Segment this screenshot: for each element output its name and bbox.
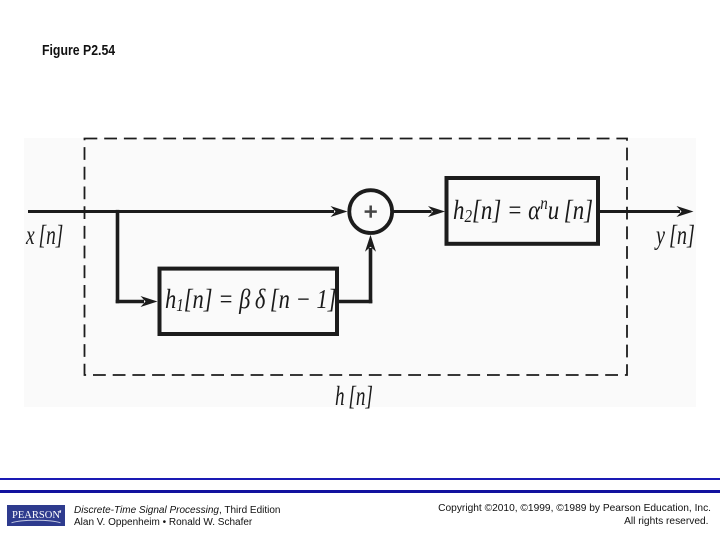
label y[n] [656, 222, 695, 249]
plus sign [365, 210, 377, 213]
footer thick blue rule [0, 490, 720, 493]
wire: block h2 to output y[n] [600, 210, 680, 213]
wire: up into adder [369, 248, 373, 303]
adder (summing junction) [349, 190, 392, 233]
footer book title [74, 505, 280, 530]
label x[n] [26, 222, 63, 249]
dashed system boundary box [85, 139, 628, 376]
block h2 equation [453, 197, 593, 224]
arrowhead into adder [331, 206, 348, 217]
wire: branch node down [116, 210, 120, 303]
Pearson logo [7, 505, 65, 526]
block h1 [160, 269, 338, 334]
scanned-figure light gray background [24, 138, 696, 407]
block h2 [447, 178, 599, 244]
figure caption "Figure P2.54" [42, 42, 115, 59]
footer thin blue rule [0, 478, 720, 480]
block h1 equation [165, 286, 337, 313]
wire: branch to block h1 [116, 300, 144, 304]
arrowhead into adder bottom [365, 235, 376, 252]
output arrowhead [677, 206, 694, 217]
label h[n] [335, 383, 373, 410]
wire: input x[n] to adder [28, 210, 334, 213]
arrowhead into h1 block [141, 296, 158, 307]
svg-text:PEARSON: PEARSON [12, 510, 60, 521]
wire: h1 output to under adder [339, 300, 372, 304]
arrowhead into h2 block [428, 206, 445, 217]
footer copyright [438, 502, 711, 528]
wire: adder to block h2 [394, 210, 432, 213]
